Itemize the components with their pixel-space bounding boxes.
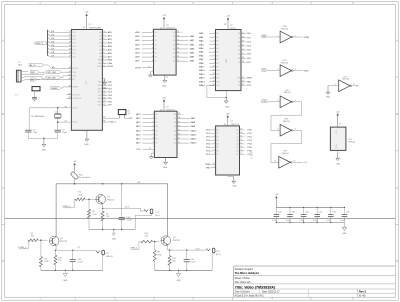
- svg-text:74HC04: 74HC04: [281, 153, 289, 155]
- svg-text:Q2: Q2: [173, 40, 175, 42]
- pin numbers U-E: [278, 129, 296, 131]
- pins VDP AD0-AD7: [99, 31, 112, 59]
- connector jack1: [144, 209, 152, 214]
- svg-text:D2: D2: [216, 136, 218, 138]
- svg-text:74HC04: 74HC04: [348, 142, 356, 144]
- svg-text:GND: GND: [336, 163, 341, 165]
- svg-text:12: 12: [83, 131, 85, 133]
- ground U-574: [228, 175, 238, 187]
- svg-text:36: 36: [103, 121, 105, 123]
- svg-text:6: 6: [214, 51, 215, 53]
- power +5V U-latch2: [162, 97, 166, 111]
- wire U-D out loop: [271, 100, 302, 130]
- connector J1 body: [16, 70, 24, 82]
- ground cap bank: [342, 223, 347, 236]
- svg-text:7: 7: [152, 52, 153, 54]
- svg-text:MA0: MA0: [199, 32, 204, 35]
- svg-text:A12: A12: [216, 77, 219, 80]
- text net X2: [78, 247, 81, 249]
- svg-text:MA10: MA10: [199, 69, 205, 72]
- title block text company: [235, 268, 259, 275]
- svg-text:A3: A3: [216, 43, 218, 46]
- svg-text:A6: A6: [216, 54, 218, 57]
- capacitor C50: [184, 250, 197, 270]
- svg-text:Q2: Q2: [236, 136, 238, 138]
- svg-text:1: 1: [152, 70, 153, 72]
- svg-text:C43: C43: [292, 211, 295, 213]
- net label CHR in3: [130, 242, 140, 250]
- svg-text:D6: D6: [216, 150, 218, 152]
- svg-text:Q4: Q4: [236, 143, 238, 145]
- text Q1: [107, 196, 115, 201]
- svg-text:RESET: RESET: [52, 88, 59, 90]
- ground latch2: [163, 158, 168, 169]
- ic ref U-E: [282, 118, 290, 122]
- svg-text:19: 19: [242, 61, 244, 63]
- svg-text:16: 16: [240, 139, 242, 141]
- ground RAM: [224, 91, 230, 109]
- svg-text:D0: D0: [216, 129, 218, 131]
- text FB1: [79, 174, 90, 179]
- ic U-574 body: [216, 126, 240, 175]
- svg-text:10: 10: [103, 31, 105, 33]
- svg-text:9: 9: [152, 60, 153, 62]
- svg-text:MA2: MA2: [199, 40, 204, 43]
- svg-text:A13: A13: [216, 80, 219, 83]
- power +5V FB1: [73, 161, 77, 172]
- svg-text:4: 4: [152, 39, 153, 41]
- wire gnd collector q1: [89, 229, 135, 230]
- svg-text:File: Video.sch: File: Video.sch: [235, 281, 251, 284]
- ground U-G: [336, 150, 341, 165]
- svg-text:22: 22: [242, 81, 244, 83]
- svg-text:MA7: MA7: [191, 117, 196, 120]
- svg-text:A0: A0: [216, 32, 218, 35]
- svg-text:Q3: Q3: [236, 140, 238, 142]
- svg-text:Q7: Q7: [236, 154, 238, 156]
- component R2 reset: [32, 87, 40, 97]
- svg-text:10: 10: [213, 66, 215, 68]
- wire R13 to base: [153, 241, 159, 243]
- svg-text:13: 13: [213, 77, 215, 79]
- wire U-A out VWR: [294, 35, 310, 38]
- svg-text:C?: C?: [38, 98, 40, 100]
- text R5b value: [31, 233, 35, 238]
- svg-text:D4: D4: [155, 130, 157, 132]
- svg-text:ROW: ROW: [108, 66, 114, 68]
- svg-text:A4: A4: [99, 45, 101, 48]
- title block frame: [234, 266, 396, 297]
- svg-text:0.1µF: 0.1µF: [127, 220, 133, 222]
- svg-text:15: 15: [213, 84, 215, 86]
- pins VDP clock: [66, 94, 82, 100]
- svg-text:4: 4: [295, 69, 296, 71]
- svg-text:Q6: Q6: [173, 57, 175, 59]
- svg-text:RD6: RD6: [98, 101, 102, 103]
- svg-text:A1: A1: [99, 35, 101, 38]
- svg-text:GND: GND: [162, 85, 167, 87]
- pin U-574 CLK: [205, 163, 216, 166]
- svg-text:A1: A1: [216, 36, 218, 39]
- svg-text:1: 1: [278, 35, 279, 37]
- pin 28 RAM: [224, 24, 226, 26]
- ic U? TMS9918A body: [71, 30, 102, 131]
- svg-text:11: 11: [148, 66, 150, 68]
- svg-text:3: 3: [153, 117, 154, 119]
- svg-text:(R-Y): (R-Y): [216, 254, 221, 256]
- transistor Q1: [96, 195, 106, 205]
- svg-text:13: 13: [177, 56, 179, 58]
- ground VDP csync: [102, 79, 107, 90]
- svg-text:14: 14: [177, 52, 179, 54]
- svg-text:PN2222: PN2222: [173, 240, 181, 242]
- svg-text:Sheet: /Video/: Sheet: /Video/: [235, 277, 250, 280]
- svg-text:GND: GND: [103, 88, 108, 90]
- pins latch1 MA outputs: [173, 31, 195, 63]
- svg-text:0.1µF: 0.1µF: [313, 220, 319, 222]
- title block text kicad: [235, 295, 366, 298]
- svg-text:CSP_CSW: CSP_CSW: [47, 72, 57, 74]
- svg-text:25: 25: [69, 38, 71, 40]
- svg-text:17: 17: [240, 136, 242, 138]
- svg-text:16: 16: [242, 49, 244, 51]
- text jack1: [155, 212, 160, 217]
- ic ref U-G: [348, 139, 356, 144]
- svg-text:CAS: CAS: [108, 62, 113, 65]
- ic ref RAM: [230, 25, 236, 30]
- ic ref latch1: [166, 25, 175, 30]
- svg-text:74HC04: 74HC04: [342, 79, 350, 81]
- svg-text:18: 18: [240, 132, 242, 134]
- ic ref latch2: [166, 107, 175, 112]
- resistor R4: [75, 198, 85, 201]
- text jack3: [216, 251, 221, 256]
- ic ref U-F: [281, 150, 289, 154]
- svg-text:3: 3: [214, 40, 215, 42]
- svg-text:MA4: MA4: [190, 52, 195, 55]
- svg-text:CSP_CSR: CSP_CSR: [47, 77, 57, 79]
- svg-text:A10: A10: [216, 69, 219, 72]
- pins VDP control left: [66, 67, 79, 88]
- svg-text:Q6: Q6: [174, 139, 176, 141]
- svg-text:RD3: RD3: [98, 92, 102, 94]
- resistor R10: [54, 250, 63, 270]
- pin U-574 OE: [206, 167, 216, 170]
- svg-text:4: 4: [103, 52, 104, 54]
- pin VDP COMVID: [102, 121, 117, 124]
- svg-text:5: 5: [214, 139, 215, 141]
- capacitor C42: [272, 207, 281, 223]
- pin latch1 LE ROW: [135, 66, 153, 69]
- svg-text:15: 15: [68, 75, 70, 77]
- svg-text:D5: D5: [154, 53, 156, 55]
- hier label D[0..7]: [34, 42, 48, 45]
- svg-text:XTAL2: XTAL2: [72, 121, 77, 124]
- svg-text:(B-Y): (B-Y): [155, 215, 160, 217]
- svg-text:0.1µF: 0.1µF: [299, 220, 305, 222]
- resistor R13: [141, 240, 153, 243]
- inverter U-E: [280, 125, 293, 137]
- svg-text:Q0: Q0: [173, 32, 175, 34]
- svg-text:13: 13: [178, 138, 180, 140]
- svg-text:2: 2: [153, 113, 154, 115]
- text Q3: [173, 237, 181, 242]
- svg-text:8: 8: [103, 38, 104, 40]
- svg-text:0.1µF: 0.1µF: [286, 220, 292, 222]
- svg-text:27: 27: [103, 94, 105, 96]
- svg-text:0.1µF: 0.1µF: [340, 220, 346, 222]
- crystal X1: [54, 107, 61, 122]
- texts stray net stubs: [250, 152, 253, 160]
- inverter U-B: [280, 65, 293, 77]
- pins RAM data VD0-VD7: [238, 32, 252, 64]
- transistor Q3: [161, 236, 171, 246]
- svg-text:GND: GND: [163, 167, 168, 169]
- svg-text:D1: D1: [216, 133, 218, 135]
- svg-text:4: 4: [214, 44, 215, 46]
- wire Q2 emitter: [55, 245, 92, 251]
- svg-text:RAS: RAS: [108, 59, 113, 62]
- svg-text:A6: A6: [99, 52, 101, 55]
- capacitor C47: [340, 207, 349, 223]
- svg-text:CSW: CSW: [72, 72, 76, 74]
- title block text sheet: [235, 277, 251, 284]
- svg-text:11: 11: [213, 69, 215, 71]
- svg-text:8: 8: [214, 58, 215, 60]
- svg-text:Q1: Q1: [174, 118, 176, 120]
- svg-text:7: 7: [339, 152, 340, 154]
- svg-text:MA9: MA9: [191, 125, 196, 128]
- svg-text:14: 14: [240, 146, 242, 148]
- svg-text:0.1µF: 0.1µF: [272, 220, 278, 222]
- svg-text:ROW: ROW: [135, 67, 141, 69]
- svg-text:13: 13: [68, 67, 70, 69]
- svg-text:C44: C44: [305, 211, 308, 213]
- svg-text:Q5: Q5: [173, 53, 175, 55]
- svg-text:1: 1: [103, 59, 104, 61]
- svg-text:MA7: MA7: [199, 58, 204, 61]
- svg-text:19: 19: [240, 129, 242, 131]
- svg-text:10.738635MHz: 10.738635MHz: [31, 116, 45, 118]
- svg-text:12: 12: [177, 60, 179, 62]
- svg-text:C: C: [2, 187, 4, 190]
- net label COML in1: [62, 199, 75, 208]
- svg-text:9: 9: [278, 129, 279, 131]
- svg-text:Q3: Q3: [173, 44, 175, 46]
- svg-text:A3: A3: [99, 42, 101, 45]
- wire to jack2: [92, 249, 96, 251]
- svg-text:D5: D5: [238, 54, 240, 56]
- global label CSP_CSR: [46, 76, 67, 80]
- svg-text:A11: A11: [216, 73, 219, 76]
- no-connect reset cap: [34, 100, 36, 102]
- svg-text:GND: GND: [326, 97, 331, 99]
- svg-text:RAM: RAM: [225, 59, 228, 63]
- svg-text:39: 39: [64, 106, 66, 108]
- wires VDP data pins D0-D7: [50, 31, 76, 59]
- svg-text:33: 33: [83, 27, 85, 29]
- svg-text:D4: D4: [216, 143, 218, 145]
- svg-text:VWR: VWR: [304, 37, 310, 39]
- ground VDP: [83, 130, 89, 146]
- svg-text:2: 2: [152, 31, 153, 33]
- svg-text:2: 2: [295, 35, 296, 37]
- svg-text:D7: D7: [154, 61, 156, 63]
- svg-text:3: 3: [278, 69, 279, 71]
- svg-text:GND: GND: [112, 239, 117, 241]
- wire XTAL2: [57, 121, 78, 124]
- svg-text:10c: 10c: [250, 158, 253, 160]
- svg-text:9: 9: [153, 142, 154, 144]
- svg-text:4.7µF: 4.7µF: [190, 262, 196, 264]
- wire Q1 emitter: [102, 204, 141, 209]
- global label CSP_CSW: [46, 71, 67, 74]
- svg-text:8: 8: [153, 138, 154, 140]
- svg-text:D7: D7: [155, 143, 157, 145]
- svg-text:14: 14: [339, 123, 341, 125]
- wire Q3 emitter: [168, 245, 207, 251]
- svg-text:3: 3: [103, 56, 104, 58]
- pin numbers U-F: [274, 161, 295, 163]
- svg-text:MA13: MA13: [191, 142, 197, 145]
- wire R5b to base: [38, 239, 47, 241]
- pin 33 VCC VDP: [83, 27, 85, 29]
- svg-text:9: 9: [214, 62, 215, 64]
- pins latch2 MA outputs: [174, 113, 197, 145]
- svg-text:CD5: CD5: [72, 50, 76, 52]
- global label RESET: [51, 87, 67, 90]
- svg-text:The Micro Hobbyist: The Micro Hobbyist: [235, 271, 259, 275]
- wire U-B out VRD: [294, 69, 309, 72]
- svg-text:A2: A2: [216, 40, 218, 43]
- svg-text:14: 14: [213, 81, 215, 83]
- svg-text:9: 9: [103, 35, 104, 37]
- svg-text:7: 7: [214, 55, 215, 57]
- svg-text:D6: D6: [154, 57, 156, 59]
- svg-text:8: 8: [214, 150, 215, 152]
- svg-text:Q1: Q1: [173, 36, 175, 38]
- svg-text:11: 11: [149, 148, 151, 150]
- svg-text:COL: COL: [136, 149, 141, 151]
- svg-text:VWR: VWR: [247, 78, 253, 80]
- svg-text:7: 7: [214, 146, 215, 148]
- svg-text:5: 5: [153, 125, 154, 127]
- svg-text:13b: 13b: [304, 162, 307, 164]
- svg-text:D4: D4: [238, 50, 240, 52]
- svg-text:A14: A14: [216, 84, 219, 87]
- svg-text:VCS: VCS: [247, 85, 252, 87]
- svg-text:WR: WR: [263, 36, 267, 38]
- ic ref U-D: [283, 90, 291, 94]
- svg-text:Q6: Q6: [236, 150, 238, 152]
- svg-text:VRD: VRD: [304, 70, 309, 72]
- svg-text:(B-Y): (B-Y): [125, 207, 130, 209]
- pins RAM address MA0-MA14: [199, 32, 220, 87]
- svg-text:D1: D1: [238, 37, 240, 39]
- pins VDP VD0-VD7: [98, 81, 113, 107]
- svg-text:RD7: RD7: [98, 105, 102, 107]
- svg-text:15: 15: [242, 45, 244, 47]
- svg-text:D3: D3: [216, 140, 218, 142]
- text R13 value: [145, 233, 150, 238]
- svg-text:74HC04: 74HC04: [281, 29, 289, 31]
- svg-text:3: 3: [214, 132, 215, 134]
- global label RST: [30, 70, 44, 73]
- pin latch2 OE gnd: [149, 152, 154, 159]
- ic ref U-B: [281, 60, 289, 64]
- svg-text:5: 5: [214, 47, 215, 49]
- pin latch1 OE gnd: [149, 70, 154, 77]
- svg-text:MA3: MA3: [190, 47, 195, 50]
- svg-text:MA5: MA5: [199, 51, 204, 54]
- global label WR inv: [262, 35, 280, 38]
- svg-text:16: 16: [177, 44, 179, 46]
- svg-text:D6: D6: [238, 58, 240, 60]
- capacitor C45: [313, 207, 322, 224]
- svg-text:GND: GND: [42, 149, 47, 151]
- svg-text:GND: GND: [232, 185, 237, 187]
- svg-text:GROMCLK: GROMCLK: [72, 98, 82, 100]
- svg-text:7: 7: [153, 134, 154, 136]
- connector jack2: [96, 250, 104, 255]
- svg-text:MA12: MA12: [191, 138, 197, 141]
- ic U? TMS9918A name: [86, 80, 88, 84]
- svg-text:CD[0..7]: CD[0..7]: [35, 43, 43, 45]
- pins latch1 AD inputs: [135, 31, 156, 63]
- pins U-574 data out: [236, 129, 252, 156]
- wire U-E out loop: [271, 130, 302, 162]
- svg-text:18: 18: [242, 57, 244, 59]
- svg-text:15: 15: [240, 143, 242, 145]
- ground crystal: [42, 138, 47, 152]
- svg-text:D6: D6: [155, 139, 157, 141]
- svg-text:(R-Y): (R-Y): [196, 249, 201, 251]
- svg-text:A0_IO: A0_IO: [30, 64, 36, 67]
- svg-text:17: 17: [69, 31, 71, 33]
- ic U-G body: [330, 127, 346, 150]
- wire RAM CS loop: [207, 86, 226, 98]
- capacitor C44: [299, 207, 308, 224]
- power +5V caps: [275, 194, 279, 207]
- text Q2: [60, 238, 68, 243]
- svg-text:C: C: [396, 187, 398, 190]
- svg-text:MA9: MA9: [199, 66, 204, 69]
- svg-text:68: 68: [128, 113, 130, 115]
- svg-text:MA4: MA4: [199, 47, 204, 50]
- svg-text:4.7µF: 4.7µF: [78, 262, 84, 264]
- svg-text:Q2: Q2: [174, 122, 176, 124]
- svg-text:20: 20: [242, 84, 244, 86]
- svg-text:CD7: CD7: [72, 57, 76, 59]
- svg-text:6: 6: [214, 143, 215, 145]
- svg-text:A7: A7: [99, 56, 101, 59]
- inverter U-D: [280, 96, 293, 108]
- svg-text:MA8: MA8: [191, 121, 196, 124]
- wire jack1 shield: [135, 214, 151, 229]
- title block text rev: [359, 290, 366, 294]
- svg-text:8: 8: [353, 84, 354, 86]
- svg-text:GND: GND: [84, 144, 89, 146]
- svg-text:16: 16: [178, 125, 180, 127]
- svg-text:Q4: Q4: [174, 130, 176, 132]
- svg-text:C45: C45: [319, 211, 322, 213]
- svg-text:4.7k: 4.7k: [15, 94, 19, 96]
- wire J1 to pins: [25, 72, 46, 80]
- svg-text:Q5: Q5: [174, 134, 176, 136]
- svg-text:29: 29: [103, 101, 105, 103]
- connector J1 ref: [18, 62, 23, 66]
- ground Q2 stage: [63, 270, 68, 282]
